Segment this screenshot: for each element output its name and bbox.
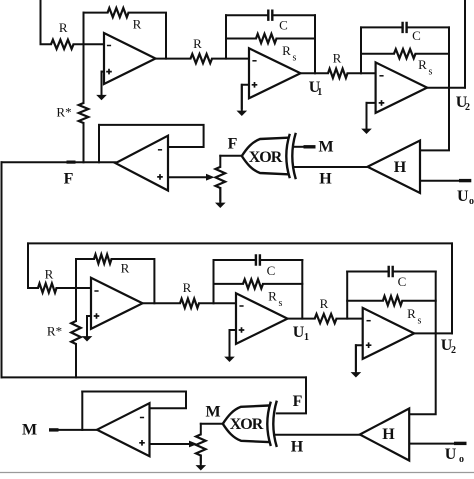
svg-text:R: R [418, 57, 427, 72]
svg-text:F: F [64, 171, 74, 188]
svg-text:2: 2 [451, 345, 456, 356]
svg-text:R: R [45, 267, 54, 282]
svg-text:o: o [469, 196, 474, 207]
svg-text:H: H [382, 426, 395, 443]
svg-text:R: R [333, 51, 342, 66]
svg-text:H: H [394, 159, 407, 176]
svg-text:M: M [205, 404, 220, 421]
svg-text:F: F [293, 393, 303, 410]
svg-text:R: R [407, 306, 416, 321]
svg-text:C: C [398, 274, 407, 289]
svg-text:R: R [320, 296, 329, 311]
svg-text:U: U [293, 324, 305, 341]
svg-text:XOR: XOR [249, 149, 283, 166]
svg-text:M: M [318, 138, 333, 155]
svg-text:R: R [59, 20, 68, 35]
svg-text:o: o [459, 454, 464, 465]
svg-text:R: R [268, 289, 277, 304]
svg-text:H: H [319, 171, 332, 188]
svg-text:C: C [412, 28, 421, 43]
svg-text:2: 2 [465, 102, 470, 113]
svg-text:R: R [133, 17, 142, 32]
svg-text:U: U [445, 446, 457, 463]
svg-text:R: R [282, 43, 291, 58]
svg-text:C: C [267, 263, 276, 278]
svg-text:XOR: XOR [230, 416, 264, 433]
svg-text:s: s [429, 67, 433, 78]
svg-text:1: 1 [317, 87, 322, 98]
svg-text:s: s [418, 316, 422, 327]
svg-text:1: 1 [304, 332, 309, 343]
svg-text:H: H [291, 438, 304, 455]
svg-text:M: M [22, 422, 37, 439]
svg-text:R*: R* [47, 324, 62, 339]
svg-text:U: U [457, 188, 469, 205]
svg-text:s: s [293, 53, 297, 64]
svg-text:F: F [228, 136, 238, 153]
svg-text:C: C [279, 18, 288, 33]
svg-text:s: s [279, 298, 283, 309]
svg-text:R: R [121, 261, 130, 276]
svg-text:R: R [193, 36, 202, 51]
svg-text:R: R [183, 280, 192, 295]
svg-text:R*: R* [56, 105, 71, 120]
